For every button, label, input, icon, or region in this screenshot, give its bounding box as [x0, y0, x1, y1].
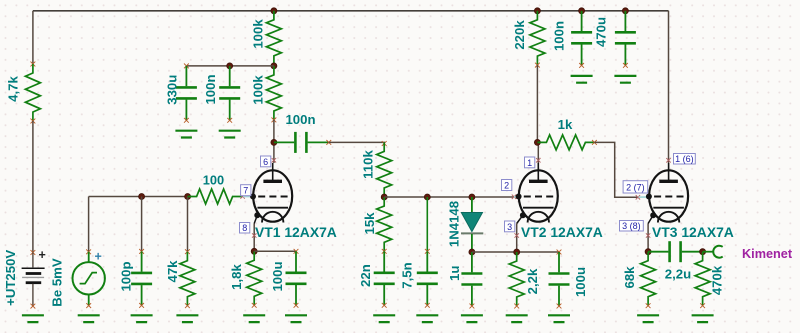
wire: VT1 cathode to 100u [254, 250, 296, 252]
ground of 1u [461, 315, 483, 322]
pin of capacitor 100u (VT2) [557, 250, 562, 255]
junction VT1 plate node [271, 139, 277, 145]
resistor 4,7k [25, 64, 40, 121]
pin of resistor 15k bottom [382, 249, 387, 254]
pin of capacitor 100u (VT1) [294, 249, 299, 254]
pin 1 (6) label of VT3 [674, 154, 696, 165]
resistor 470k [695, 252, 710, 306]
resistor 15k [377, 197, 392, 251]
svg-text:100u: 100u [270, 261, 285, 291]
svg-text:Kimenet: Kimenet [742, 247, 793, 261]
junction supply rail / 470u [622, 8, 628, 14]
wire: VT2 grid pin lead [514, 196, 520, 198]
wire: VT2 cathode lead down [516, 224, 518, 252]
pin of capacitor 100u (VT1) bottom [294, 303, 299, 308]
ground of 100u (VT1) [285, 315, 307, 322]
pin of VT1 plate [272, 158, 276, 162]
ground of 330u [175, 131, 197, 138]
junction VT1 cathode node [251, 248, 257, 254]
wire: left rail lower segment to battery [32, 121, 34, 253]
capacitor 1u [471, 252, 473, 272]
capacitor 22n [383, 251, 385, 271]
junction output node [700, 249, 706, 255]
wire: 7,5n lead down [426, 197, 428, 251]
ground of battery [22, 315, 44, 322]
pin of resistor 1,8k bottom [252, 303, 257, 308]
ground of 22n [373, 315, 395, 322]
svg-text:1N4148: 1N4148 [447, 201, 462, 247]
junction diode / 1u / cathode wire [469, 249, 475, 255]
diode 1N4148 [461, 197, 483, 252]
pin of capacitor 100n (supply) bottom [579, 63, 584, 68]
svg-text:1u: 1u [447, 266, 462, 281]
capacitor 330u [185, 66, 187, 86]
junction grid wire / diode [469, 194, 475, 200]
pin of VT2 cathode [515, 233, 519, 237]
pin 2 (7) label of VT3 [623, 181, 648, 193]
ground of 470k [692, 315, 714, 322]
ground of 7,5n [416, 315, 438, 322]
pin 1 label of VT2 [525, 157, 535, 168]
capacitor 2,2u [648, 251, 668, 253]
svg-text:1: 1 [527, 158, 532, 168]
pin of resistor 68k bottom [646, 303, 651, 308]
svg-text:100n: 100n [285, 112, 315, 127]
capacitor 100n (decoupling) [229, 66, 231, 86]
capacitor 100u (VT2) [558, 252, 560, 272]
wire: VT1 plate lead up [273, 142, 275, 163]
pin of capacitor 1u bottom [470, 304, 475, 309]
wire: 1k to VT3 grid [594, 142, 638, 197]
resistor 1,8k [247, 251, 262, 305]
capacitor 100u (VT1) [295, 251, 297, 271]
wire: VT3 cathode lead down [647, 224, 649, 252]
resistor 100k (upper) [266, 11, 281, 65]
svg-text:22n: 22n [358, 264, 373, 287]
wire: 220k to VT2 plate junction [536, 65, 538, 142]
junction input node / 47k [185, 194, 191, 200]
tube VT1 12AX7A [253, 170, 292, 221]
pin of resistor 47k bottom [185, 303, 190, 308]
svg-text:4,7k: 4,7k [6, 76, 21, 102]
junction supply rail / 220k [534, 8, 540, 14]
junction input node / 100p [139, 194, 145, 200]
wire: VT1 cathode lead down [253, 224, 255, 252]
pin of capacitor 7,5n bottom [425, 303, 430, 308]
svg-text:68k: 68k [622, 266, 637, 289]
capacitor 100n (coupling) [274, 141, 294, 143]
resistor 100 (grid stopper) [188, 189, 242, 204]
svg-text:220k: 220k [512, 20, 527, 50]
pin of capacitor 470u bottom [623, 63, 628, 68]
svg-text:7: 7 [243, 186, 248, 196]
pin of resistor 100k lower bottom [272, 118, 277, 123]
pin of capacitor 22n bottom [382, 303, 387, 308]
junction grid wire / 7,5n [424, 194, 430, 200]
svg-text:+UT250V: +UT250V [3, 250, 18, 306]
svg-text:470u: 470u [594, 17, 609, 47]
pin of VT1 cathode [252, 233, 256, 237]
wire: top +250V supply rail [33, 10, 669, 12]
wire: source Be 5mV vertical lead [88, 197, 90, 252]
capacitor 100p [141, 251, 143, 271]
pin 6 label of VT1 [261, 156, 271, 167]
junction VT2 cathode node [514, 249, 520, 255]
pin of source bottom [86, 303, 91, 308]
pin of capacitor 100u (VT2) bottom [557, 304, 562, 309]
pin of VT2 grid [512, 195, 516, 199]
pin 7 label of VT1 [241, 185, 251, 196]
svg-text:2,2u: 2,2u [665, 267, 691, 282]
svg-text:3 (8): 3 (8) [622, 221, 641, 231]
pin 8 label of VT1 [240, 223, 250, 234]
capacitor 100n (supply) [581, 11, 583, 31]
svg-text:1k: 1k [558, 117, 573, 132]
ground of source [78, 315, 100, 322]
ground of 100n [219, 131, 241, 138]
svg-text:8: 8 [242, 223, 247, 233]
ground of 2,2k [506, 315, 528, 322]
pin of VT2 plate [536, 158, 540, 162]
svg-text:6: 6 [263, 157, 268, 167]
pin of resistor 110k top [382, 141, 387, 146]
source Be 5mV [73, 252, 105, 306]
ground of 470u [614, 76, 636, 83]
pin 3 label of VT2 [505, 221, 515, 232]
pin of resistor 1k right [592, 140, 597, 145]
pin of resistor 470k bottom [700, 303, 705, 308]
ground of 100p [131, 315, 153, 322]
wire: VT2 plate lead up [537, 142, 539, 163]
ground of 47k [176, 315, 198, 322]
svg-text:110k: 110k [361, 150, 376, 179]
resistor 100k (lower) [266, 66, 281, 120]
svg-text:VT1 12AX7A: VT1 12AX7A [255, 224, 337, 240]
svg-text:7,5n: 7,5n [400, 262, 415, 288]
svg-text:15k: 15k [362, 212, 377, 235]
svg-text:1,8k: 1,8k [229, 264, 244, 290]
pin of capacitor 100p bottom [139, 303, 144, 308]
tube VT3 12AX7A [649, 170, 688, 221]
svg-text:330u: 330u [165, 75, 180, 105]
wire: decoupling row [186, 65, 274, 67]
wire: 100p lead down [141, 197, 143, 252]
pin of resistor 100 right / VT1 grid [240, 194, 244, 198]
svg-text:100n: 100n [203, 74, 218, 104]
pin of resistor 4,7k top [31, 62, 36, 67]
ground of 100u (VT2) [548, 315, 570, 322]
svg-text:2,2k: 2,2k [525, 268, 540, 294]
svg-text:+: + [39, 248, 46, 262]
resistor 68k [641, 252, 656, 306]
pin of capacitor 7,5n [425, 249, 430, 254]
svg-text:3: 3 [507, 222, 512, 232]
svg-text:100: 100 [203, 173, 224, 188]
wire: 100k to VT1 plate junction [273, 120, 275, 142]
wire: left rail upper segment to R 4,7k [32, 11, 34, 64]
wire: VT2 grid wire [384, 196, 513, 198]
junction decoupling row / 100n [227, 63, 233, 69]
battery +UT250V [22, 253, 45, 307]
svg-text:2: 2 [504, 181, 509, 191]
junction VT3 cathode node [645, 249, 651, 255]
resistor 47k [180, 252, 195, 306]
capacitor 7,5n [426, 251, 428, 271]
resistor 1k [537, 135, 594, 150]
pin of capacitor 100p [139, 249, 144, 254]
svg-text:470k: 470k [710, 265, 725, 295]
svg-text:100p: 100p [119, 261, 134, 291]
pin of battery top [31, 250, 36, 255]
resistor 220k [530, 11, 545, 65]
tube VT2 12AX7A [519, 170, 558, 221]
wire: output lead [703, 251, 714, 253]
junction supply rail / 100n [579, 8, 585, 14]
pin 3 (8) label of VT3 [620, 221, 644, 232]
wire: supply rail down to VT3 plate [668, 11, 670, 163]
ground of 100n (supply) [571, 76, 593, 83]
svg-text:VT3 12AX7A: VT3 12AX7A [652, 224, 734, 240]
svg-text:100k: 100k [251, 75, 266, 105]
svg-text:100k: 100k [251, 19, 266, 49]
wire: 47k lead down [187, 197, 189, 252]
pin of capacitor 330u bottom [184, 118, 189, 123]
resistor 2,2k [509, 252, 524, 306]
resistor 110k [377, 142, 392, 197]
svg-text:Be 5mV: Be 5mV [50, 258, 65, 307]
wire: VT1 grid pin lead [243, 196, 256, 198]
wire: input node row (grid of VT1) [89, 196, 188, 198]
pin of VT3 grid [636, 195, 640, 199]
pin of capacitor 330u top [184, 64, 189, 69]
pin of coupling cap right [326, 140, 331, 145]
pin of resistor 220k bottom [535, 63, 540, 68]
wire: VT3 grid pin lead [639, 196, 651, 198]
junction 110k/15k (VT2 grid wire) [381, 194, 387, 200]
svg-text:100u: 100u [573, 267, 588, 297]
svg-text:47k: 47k [165, 260, 180, 283]
junction supply rail / 100k [271, 8, 277, 14]
wire: diode node to VT2 cathode to 100u [472, 251, 559, 253]
pin of capacitor 100n bottom [227, 118, 232, 123]
svg-text:1 (6): 1 (6) [675, 154, 694, 164]
capacitor 470u [624, 11, 626, 31]
junction VT2 plate node [534, 139, 540, 145]
pin of resistor 2,2k bottom [514, 304, 519, 309]
ground of 1,8k [243, 315, 265, 322]
output connector Kimenet [713, 246, 722, 258]
pin of VT3 cathode [646, 233, 650, 237]
pin of resistor 47k [185, 249, 190, 254]
svg-text:2 (7): 2 (7) [626, 182, 645, 192]
pin of resistor 4,7k bottom [31, 119, 36, 124]
pin of source top [86, 249, 91, 254]
pin of battery bottom [31, 304, 36, 309]
svg-text:100n: 100n [552, 21, 567, 51]
svg-text:VT2 12AX7A: VT2 12AX7A [521, 224, 603, 240]
pin 2 label of VT2 [502, 180, 512, 191]
junction 100k/100k node [271, 63, 277, 69]
svg-text:+: + [95, 250, 102, 264]
ground of 68k [637, 315, 659, 322]
wire: coupling cap to 110k [329, 142, 384, 146]
pin of VT3 plate [666, 158, 670, 162]
